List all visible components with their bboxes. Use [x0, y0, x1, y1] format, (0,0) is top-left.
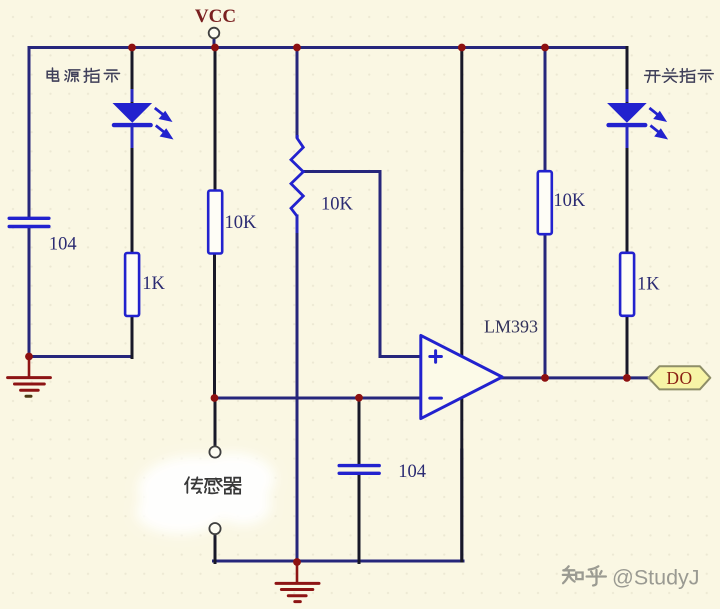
svg-text:LM393: LM393 [484, 317, 538, 337]
svg-text:1K: 1K [142, 274, 165, 294]
svg-text:104: 104 [49, 234, 77, 254]
svg-text:@StudyJ: @StudyJ [612, 566, 700, 590]
svg-text:104: 104 [398, 462, 426, 482]
svg-text:10K: 10K [321, 195, 354, 215]
svg-text:VCC: VCC [195, 6, 236, 27]
svg-text:10K: 10K [553, 191, 586, 211]
svg-text:10K: 10K [225, 213, 258, 233]
svg-text:DO: DO [666, 368, 692, 388]
svg-text:1K: 1K [637, 275, 660, 295]
